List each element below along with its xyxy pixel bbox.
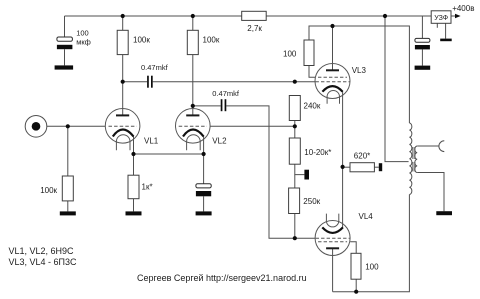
wire VL3 cathode to VL4 cathode (342, 91, 344, 228)
svg-text:мкф: мкф (76, 37, 91, 46)
svg-text:VL3, VL4 - 6П3С: VL3, VL4 - 6П3С (9, 257, 78, 267)
wire rail to C5 (421, 16, 423, 38)
wire VL2 cathode lead to C4 (203, 136, 205, 184)
svg-text:VL4: VL4 (359, 212, 374, 221)
wire drop from rail to C1 (64, 16, 66, 37)
wire to R8 top (294, 175, 296, 188)
svg-text:VL1, VL2, 6Н9С: VL1, VL2, 6Н9С (9, 246, 75, 256)
ground under C1 (55, 65, 74, 69)
junction node VL2 anode / C3 (191, 104, 195, 108)
resistor R10 620* (cathode bias VL3/VL4) (350, 152, 374, 172)
ground under R4 (60, 211, 76, 215)
wire R10 right to ground cap (374, 166, 378, 168)
triode VL2 (176, 109, 211, 151)
ground under UZF (440, 39, 452, 42)
wire UZF right stub to ground (445, 23, 447, 38)
ground rotated at R10 right (379, 163, 382, 171)
UZF filter box (431, 11, 451, 23)
wire VL1 anode to C2 (123, 81, 147, 83)
svg-text:0.47mkf: 0.47mkf (212, 89, 240, 98)
wire to R5 top (133, 154, 135, 175)
capacitor C2 0.47mkf coupling (141, 63, 169, 88)
junction node input / R4 (66, 124, 70, 128)
wire C5 to ground (421, 49, 423, 65)
junction node VL3 grid / R6 (293, 80, 297, 84)
wire divider column R6-R7 (294, 121, 296, 139)
transformer T1 core (413, 147, 415, 172)
input jack XS1 (25, 116, 47, 138)
ground rotated at R7 junction (304, 170, 309, 180)
triode VL1 (105, 109, 140, 151)
junction node cathodes / R10 (341, 165, 345, 169)
output hook (439, 141, 444, 152)
ground under C5 (415, 66, 431, 70)
capacitor C3 0.47mkf coupling (212, 89, 240, 111)
wire C1 to ground (64, 49, 66, 65)
wire R1 bottom to VL1 anode (122, 55, 124, 116)
+400v arrow (455, 14, 461, 18)
svg-text:100к: 100к (203, 36, 220, 45)
wire cathode row VL1-VL2 (134, 153, 204, 155)
wire VL2 grid to divider junction (210, 125, 295, 127)
wire UZF left stub (436, 23, 438, 28)
wire top B+ rail left segment (65, 15, 242, 17)
wire rail to R1 top (122, 16, 124, 30)
capacitor C1 100mkf electrolytic (57, 28, 91, 49)
wire C2 to VL3 grid (153, 81, 315, 83)
resistor R1 100k (VL1 plate load) (117, 30, 150, 54)
wire input jack to VL1 grid (47, 125, 105, 127)
junction node VL2 cathode (202, 152, 206, 156)
svg-text:+400в: +400в (452, 4, 474, 13)
wire VL2 anode to C3 (193, 105, 221, 107)
junction node VL1 cathode (131, 152, 135, 156)
resistor R7 10-20k* (289, 138, 331, 164)
svg-text:100к: 100к (133, 36, 150, 45)
svg-text:100: 100 (283, 49, 297, 58)
resistor R5 1k* (cathode bias VL1/VL2) (128, 175, 153, 199)
wire R7 bottom to ground stub (295, 164, 305, 174)
wire C3 to VL4 grid (226, 106, 315, 238)
resistor R9 100 (VL3 screen) (283, 40, 314, 66)
svg-text:VL1: VL1 (144, 136, 159, 145)
wire secondary bottom lead to ground (417, 173, 444, 212)
wire top B+ rail right segment (266, 15, 431, 17)
wire bottom row to primary bottom (333, 195, 410, 292)
junction node rail-R1 (121, 14, 125, 18)
wire UZF output (451, 15, 455, 17)
wire rail drop to transformer centre tap (385, 16, 409, 162)
svg-text:VL2: VL2 (212, 136, 227, 145)
svg-text:10-20к*: 10-20к* (304, 148, 331, 157)
resistor R2 100k (VL2 plate load) (187, 30, 220, 54)
wire VL1 cathode lead (133, 136, 135, 154)
resistor R8 250k (VL4 grid leak) (289, 188, 321, 214)
beam tetrode VL4 (inverted) (315, 214, 350, 256)
transformer T1 primary winding (409, 123, 411, 195)
svg-text:0.47mkf: 0.47mkf (141, 63, 169, 72)
resistor R3 2,7k (B+ dropper) (242, 11, 267, 33)
svg-text:620*: 620* (354, 152, 370, 161)
svg-text:100к: 100к (40, 186, 57, 195)
wire VL4 screen lead (350, 242, 356, 254)
wire R4 bottom to ground (67, 201, 69, 212)
wire R11 bottom to bottom row (355, 279, 357, 292)
resistor R6 240k (289, 96, 321, 121)
junction node VL3 anode bus (330, 24, 334, 28)
svg-text:100: 100 (76, 28, 89, 37)
wire C4 bottom to ground (203, 196, 205, 211)
junction node bottom row / R11 (354, 290, 358, 294)
svg-text:240к: 240к (304, 102, 321, 111)
wire rail to R2 top (192, 16, 194, 30)
capacitor C5 filter electrolytic (415, 38, 430, 49)
junction node VL1 anode / C2 (121, 80, 125, 84)
resistor R11 100 (VL4 screen) (351, 253, 379, 279)
ground under secondary (436, 211, 452, 215)
wire VL4 anode lead down (332, 248, 334, 291)
svg-text:VL3: VL3 (352, 66, 367, 75)
junction node divider / VL2 grid (293, 124, 297, 128)
wire junction to R10 left (343, 166, 350, 168)
wire jack tap down to R4 (67, 126, 69, 176)
svg-text:Сергеев Сергей http://sergee: Сергеев Сергей http://sergeev21.narod.ru (137, 273, 307, 283)
ground under C4 (196, 211, 212, 215)
wire VL3 anode bus y=26 (309, 26, 409, 123)
beam tetrode VL3 (315, 64, 350, 104)
junction node rail-R2 (191, 14, 195, 18)
svg-text:2,7к: 2,7к (247, 24, 262, 33)
wire R5 bottom to ground (133, 199, 135, 212)
wire VL3 anode lead (332, 26, 334, 70)
wire secondary top lead (417, 145, 439, 147)
transformer T1 secondary winding (415, 146, 417, 173)
svg-text:100: 100 (365, 262, 379, 271)
ground under R5 (126, 211, 142, 215)
wire VL3 screen lead (309, 66, 315, 78)
capacitor C4 cathode bypass electrolytic (196, 184, 211, 197)
svg-text:250к: 250к (303, 197, 320, 206)
svg-text:УЗФ: УЗФ (434, 15, 448, 22)
junction node rail-CT (383, 14, 387, 18)
wire R8 bottom to VL4 grid (294, 214, 296, 239)
wire R2 bottom to VL2 anode (192, 55, 194, 116)
junction node VL4 grid / R8 (293, 236, 297, 240)
resistor R4 100k (input grid leak) (40, 176, 73, 201)
svg-text:1к*: 1к* (142, 182, 153, 191)
